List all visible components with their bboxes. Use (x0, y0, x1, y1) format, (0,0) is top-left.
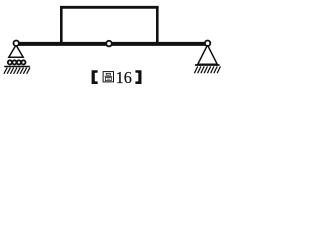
left support ground line (4, 66, 30, 68)
caption character tu (figure) (103, 72, 113, 82)
caption left bracket (92, 70, 98, 84)
right support ground line (195, 64, 220, 66)
frame left column (60, 6, 63, 43)
frame top member (60, 6, 159, 9)
internal hinge (106, 41, 112, 47)
left support rollers (8, 60, 26, 64)
right support pin circle (205, 41, 210, 46)
left support hatching (4, 68, 30, 74)
frame right column (156, 6, 159, 43)
right support triangle (198, 45, 217, 64)
left support triangle (9, 45, 23, 57)
beam (16, 42, 208, 46)
left support pin circle (14, 41, 19, 46)
svg-text:16: 16 (116, 68, 133, 87)
right support hatching (194, 66, 220, 73)
caption right bracket (135, 70, 141, 84)
